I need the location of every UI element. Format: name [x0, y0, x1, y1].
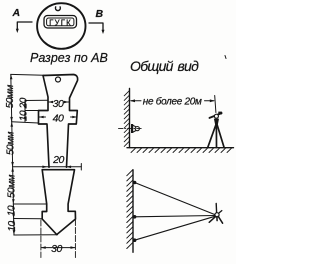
- theodolite (upper): telescope bar: [210, 113, 222, 118]
- sight line top: [135, 183, 215, 215]
- svg-text:20: 20: [52, 154, 64, 166]
- theodolite (upper): base block: [214, 119, 219, 126]
- lower wall vertical: [132, 170, 134, 252]
- hole in marker head: [56, 77, 61, 82]
- svg-text:10: 10: [19, 110, 30, 121]
- svg-text:Разрез по АВ: Разрез по АВ: [30, 51, 108, 65]
- svg-text:20: 20: [19, 97, 30, 109]
- dim line: не более 20м: [131, 100, 141, 102]
- wall point middle: [133, 215, 137, 219]
- svg-text:30: 30: [53, 98, 64, 110]
- svg-text:50мм: 50мм: [6, 174, 17, 198]
- svg-text:50мм: 50мм: [6, 131, 17, 155]
- theodolite (lower): legs: [209, 216, 216, 222]
- chain arrowheads: [10, 75, 15, 235]
- inner chain vertical: [24, 101, 26, 122]
- upper ground hatching: [131, 148, 232, 152]
- svg-text:30: 30: [51, 243, 62, 255]
- theodolite (upper): body circle: [214, 114, 218, 118]
- svg-text:Общий вид: Общий вид: [130, 58, 199, 74]
- chain tick y=74.4 / extension to head top: [11, 73, 44, 76]
- upper wall hatching: [124, 91, 129, 147]
- plan view: inner plate rounded rectangle: [44, 16, 77, 29]
- plan view: top knob (small U hook under rim): [55, 7, 60, 11]
- chain tick y=235 (to apex): [14, 234, 58, 236]
- theodolite (lower): mast: [215, 204, 217, 213]
- extension lines for bottom 30: [40, 220, 42, 258]
- svg-text:А: А: [12, 7, 21, 19]
- marker profile: lower anchor body with point: [42, 170, 75, 235]
- svg-text:ГУГК: ГУГК: [49, 18, 72, 27]
- lower wall hatching: [127, 170, 133, 249]
- section cut arrow A: [17, 22, 32, 31]
- left dimension chain vertical: [11, 74, 14, 235]
- svg-text:40: 40: [53, 112, 64, 124]
- svg-text:50мм: 50мм: [5, 85, 16, 109]
- marker profile: head, neck, collar, shank: [39, 75, 78, 168]
- stray mark: [225, 56, 226, 59]
- svg-text:10: 10: [7, 205, 18, 216]
- sight line middle: [135, 216, 215, 217]
- chain tick y=218.5: [13, 218, 42, 220]
- inner chain tick y=110.5: [25, 110, 39, 112]
- upper wall vertical: [129, 89, 131, 148]
- dim 30 (neck): [48, 101, 53, 103]
- plan view: outer circle of survey mark: [37, 3, 85, 49]
- dim 40 (collar): [39, 116, 46, 118]
- section cut arrow B: [89, 23, 103, 32]
- theodolite (lower): body circle: [215, 213, 219, 217]
- wall point bottom: [133, 238, 137, 242]
- sight line bottom: [135, 216, 215, 240]
- chain tick y=121.8: [12, 122, 39, 123]
- wall point top: [133, 181, 137, 185]
- inner chain tick y=100.5: [25, 99, 48, 101]
- upper ground line: [127, 147, 234, 149]
- extension line over theodolite: [215, 96, 216, 113]
- wall bench mark symbol: [119, 128, 143, 130]
- svg-text:В: В: [96, 8, 104, 20]
- chain tick y=204: [13, 203, 47, 205]
- svg-text:10: 10: [7, 221, 18, 232]
- theodolite (upper): tripod legs: [208, 125, 216, 147]
- svg-text:не более 20м: не более 20м: [143, 96, 202, 108]
- dim 30 (bottom point): [41, 247, 75, 249]
